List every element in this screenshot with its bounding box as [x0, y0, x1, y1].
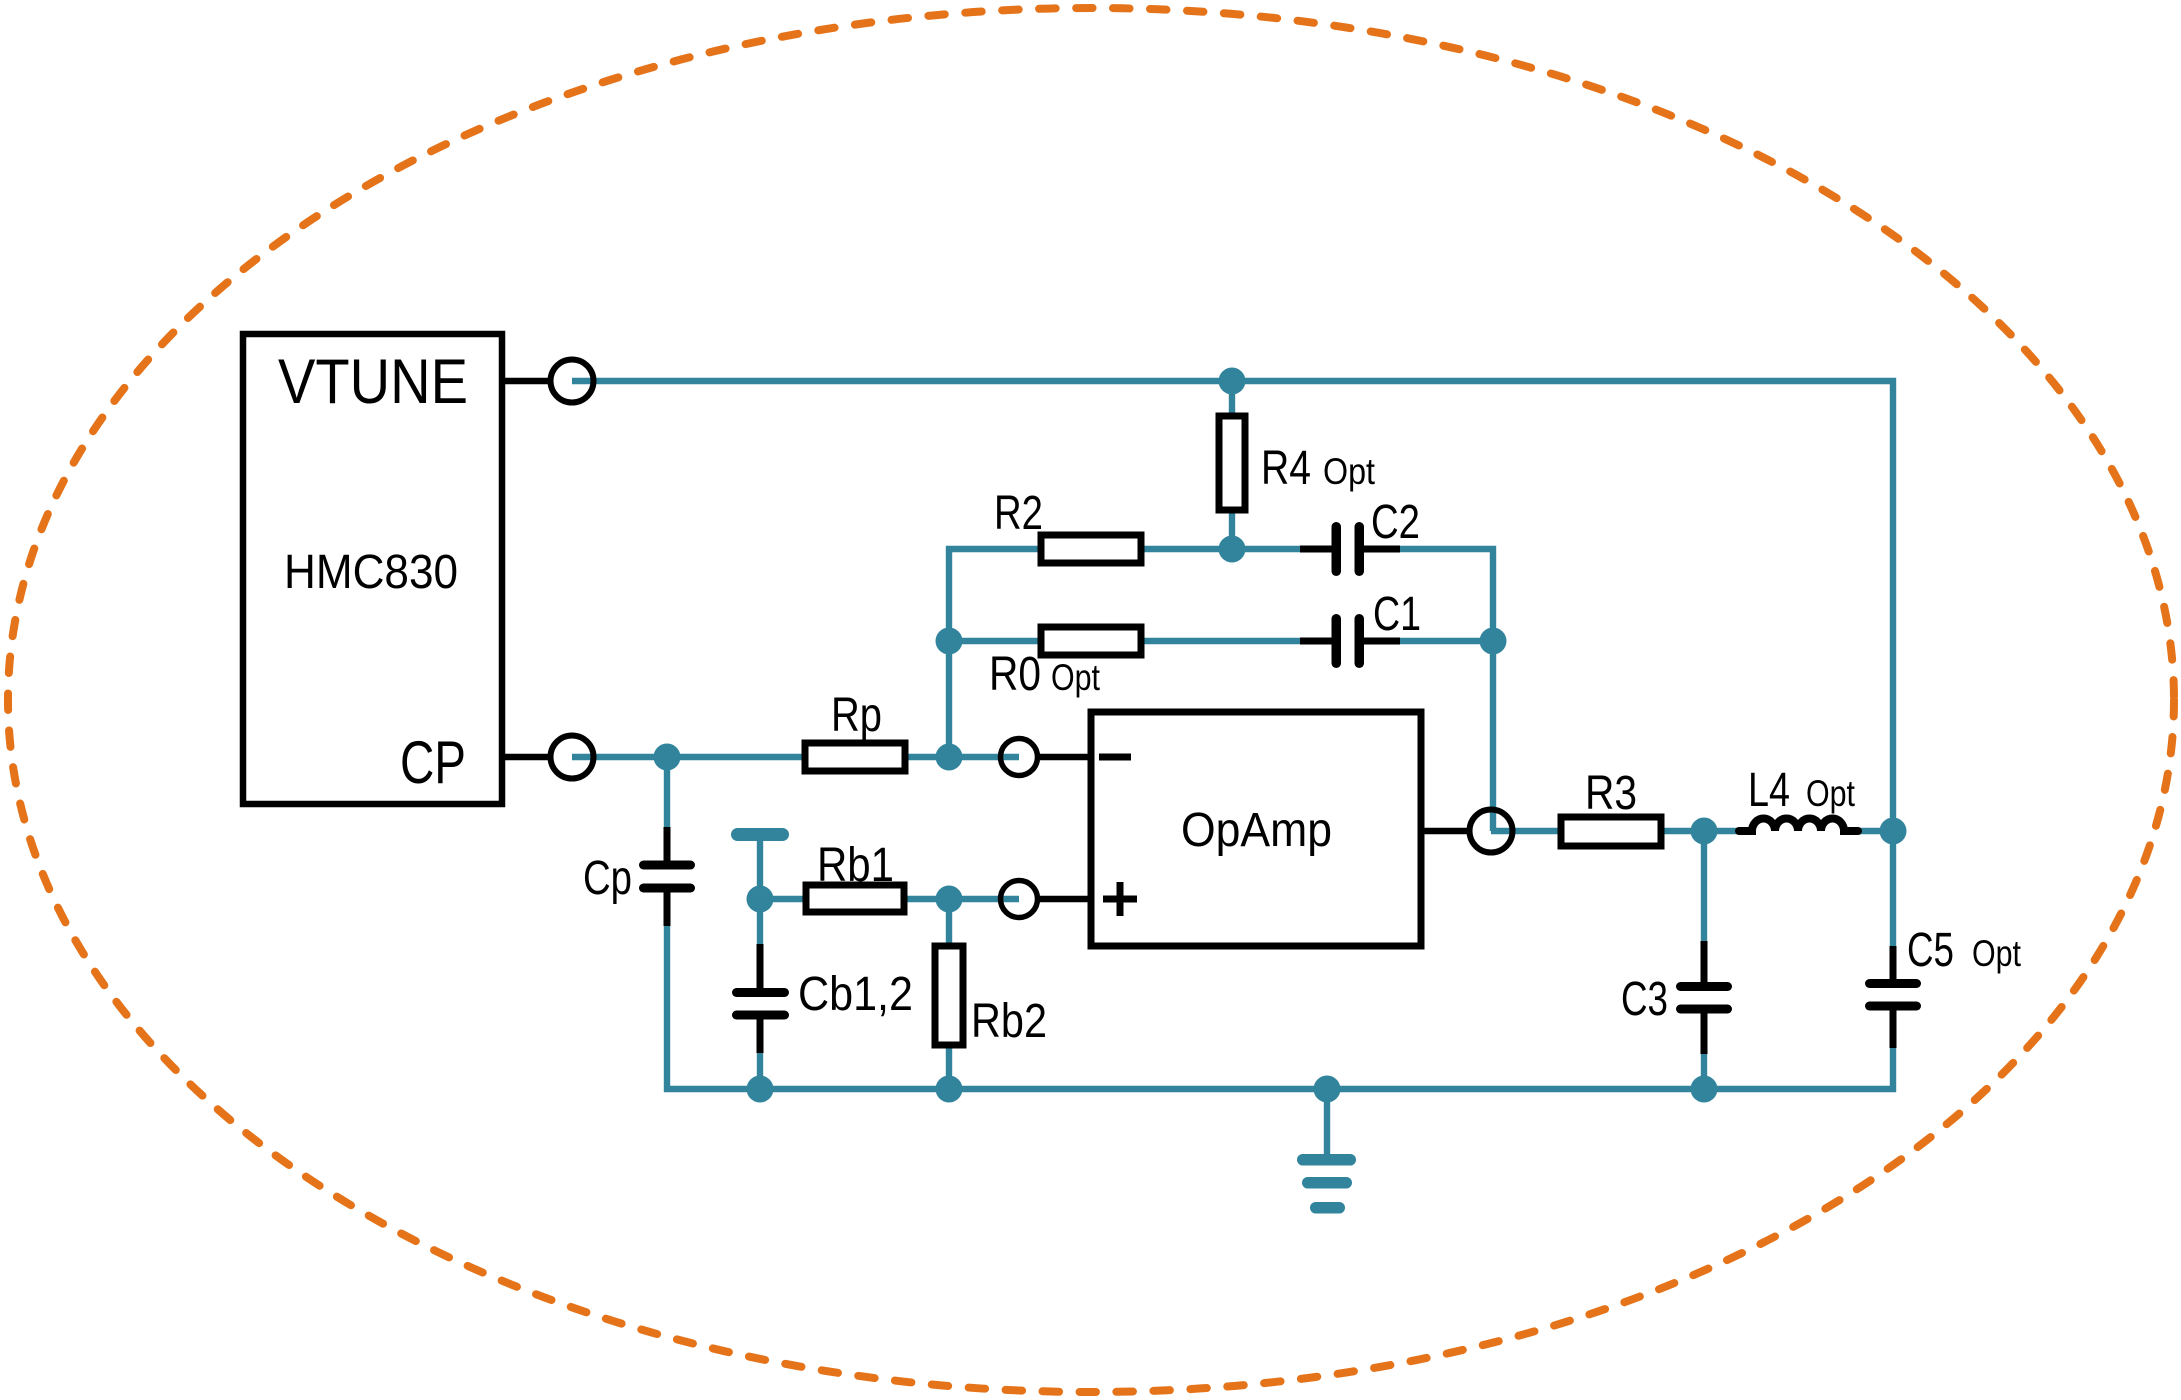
- svg-text:C3: C3: [1621, 973, 1668, 1026]
- svg-text:R2: R2: [994, 487, 1043, 540]
- svg-text:R4: R4: [1261, 442, 1311, 495]
- svg-text:VTUNE: VTUNE: [278, 347, 468, 417]
- svg-text:Rb1: Rb1: [817, 839, 894, 892]
- svg-text:R0: R0: [989, 648, 1041, 701]
- svg-text:C5: C5: [1907, 924, 1954, 977]
- svg-text:Rp: Rp: [831, 689, 882, 742]
- svg-text:OpAmp: OpAmp: [1181, 804, 1332, 857]
- svg-text:Rb2: Rb2: [971, 995, 1047, 1048]
- svg-text:CP: CP: [400, 729, 466, 796]
- svg-text:Opt: Opt: [1051, 657, 1101, 698]
- svg-text:R3: R3: [1585, 767, 1637, 820]
- svg-text:Opt: Opt: [1972, 933, 2022, 974]
- svg-text:Opt: Opt: [1323, 451, 1376, 492]
- svg-text:C2: C2: [1371, 496, 1420, 549]
- svg-text:C1: C1: [1373, 588, 1421, 641]
- svg-text:Opt: Opt: [1806, 773, 1856, 814]
- svg-text:Cp: Cp: [583, 852, 632, 905]
- svg-text:HMC830: HMC830: [284, 546, 458, 599]
- svg-text:L4: L4: [1748, 764, 1790, 817]
- svg-text:Cb1,2: Cb1,2: [798, 968, 913, 1021]
